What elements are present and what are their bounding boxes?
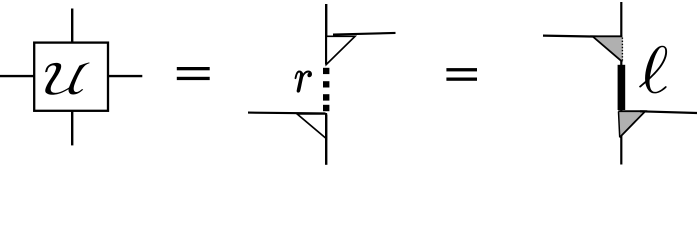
wire right top-left leg [543, 36, 598, 37]
equals sign 2 [446, 68, 477, 81]
wire middle top vertical [325, 4, 327, 65]
thick bond bar ell [618, 65, 626, 110]
gray isometry triangle (right top) [593, 36, 623, 62]
equals sign 1 [177, 67, 210, 80]
label ell glyph [636, 46, 669, 94]
wire bottom leg of U box [71, 111, 73, 146]
wire right diagram vertical [620, 2, 622, 165]
label script-U glyph [45, 63, 90, 95]
isometry triangle tensor (middle bottom) [297, 114, 326, 139]
isometry triangle tensor (middle top) [326, 36, 355, 64]
dotted edge of bottom triangle [619, 112, 620, 138]
wire middle bottom vertical [325, 115, 327, 165]
wire middle top-right leg [333, 33, 396, 35]
wire middle bottom-left leg [248, 112, 326, 115]
gray isometry triangle (right bottom) [618, 111, 645, 137]
label r [295, 71, 312, 92]
dotted bond r (4 dashes) [323, 68, 329, 111]
wire right bottom-right leg [640, 111, 697, 113]
dotted edge of top triangle [621, 38, 623, 62]
wire left leg of U box [0, 75, 34, 77]
wire right leg of U box [108, 75, 142, 77]
tensor U box [34, 43, 108, 111]
wire top leg of U box [71, 9, 73, 43]
